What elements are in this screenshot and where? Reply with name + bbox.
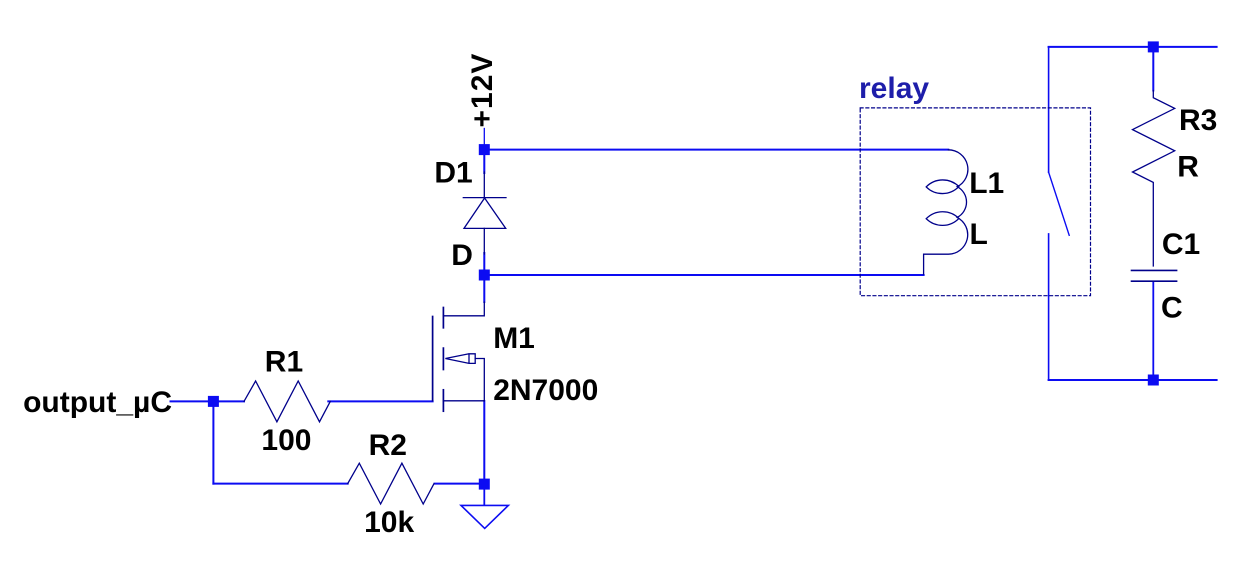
wire M1 source to ground node — [483, 401, 485, 484]
svg-text:R2: R2 — [369, 429, 407, 462]
wire node D to relay coil bottom — [484, 274, 923, 276]
node D junction — [479, 270, 490, 281]
wire R2 to ground node — [435, 483, 485, 485]
svg-text:output_µC: output_µC — [23, 386, 172, 419]
svg-text:10k: 10k — [364, 506, 414, 539]
wire D1 anode to node D — [483, 253, 485, 275]
wire top right run — [1049, 46, 1217, 48]
node top right junction — [1148, 41, 1159, 52]
wire bottom run to R2 — [213, 483, 347, 485]
svg-text:L: L — [970, 218, 988, 251]
wire node A down — [212, 401, 214, 483]
svg-text:C: C — [1161, 292, 1183, 325]
transistor M1 (NMOS 2N7000) — [433, 308, 444, 412]
svg-text:2N7000: 2N7000 — [493, 374, 598, 407]
svg-text:R: R — [1177, 150, 1199, 183]
svg-text:M1: M1 — [493, 322, 535, 355]
wire +12V node to D1 cathode — [483, 150, 485, 173]
wire node D to M1 drain — [483, 275, 485, 302]
node bottom right junction — [1148, 375, 1159, 386]
ground — [461, 505, 508, 528]
svg-text:100: 100 — [261, 424, 311, 457]
wire output stub to node A — [171, 400, 245, 402]
svg-text:D1: D1 — [434, 156, 472, 189]
node A junction — [208, 396, 219, 407]
svg-text:R1: R1 — [265, 346, 303, 379]
wire C1 to bottom node — [1152, 282, 1154, 381]
switch S (relay contact) — [1049, 47, 1070, 380]
svg-text:D: D — [451, 239, 473, 272]
wire ground node to ground symbol — [483, 484, 485, 505]
diode D1 — [463, 172, 506, 254]
inductor crossover lobe 2 — [926, 212, 959, 226]
relay dashed box — [860, 108, 1090, 296]
svg-text:L1: L1 — [969, 167, 1004, 200]
wire +12V label stub — [483, 129, 485, 150]
node ground junction — [479, 479, 490, 490]
inductor crossover lobe 1 — [926, 180, 959, 194]
wire bottom right run — [1049, 379, 1217, 381]
inductor L1 (relay coil) — [924, 150, 968, 274]
wire +12V node to relay coil top — [484, 149, 948, 151]
resistor R1 — [244, 381, 330, 422]
svg-text:R3: R3 — [1179, 104, 1217, 137]
node +12V junction — [479, 144, 490, 155]
resistor R3 — [1133, 91, 1175, 267]
capacitor C1 — [1132, 270, 1177, 281]
wire top node to R3 — [1152, 47, 1154, 91]
svg-text:C1: C1 — [1162, 228, 1200, 261]
wire node A to M1 gate — [328, 400, 432, 402]
svg-text:relay: relay — [859, 72, 929, 105]
svg-text:+12V: +12V — [466, 53, 499, 128]
resistor R2 — [348, 463, 434, 504]
